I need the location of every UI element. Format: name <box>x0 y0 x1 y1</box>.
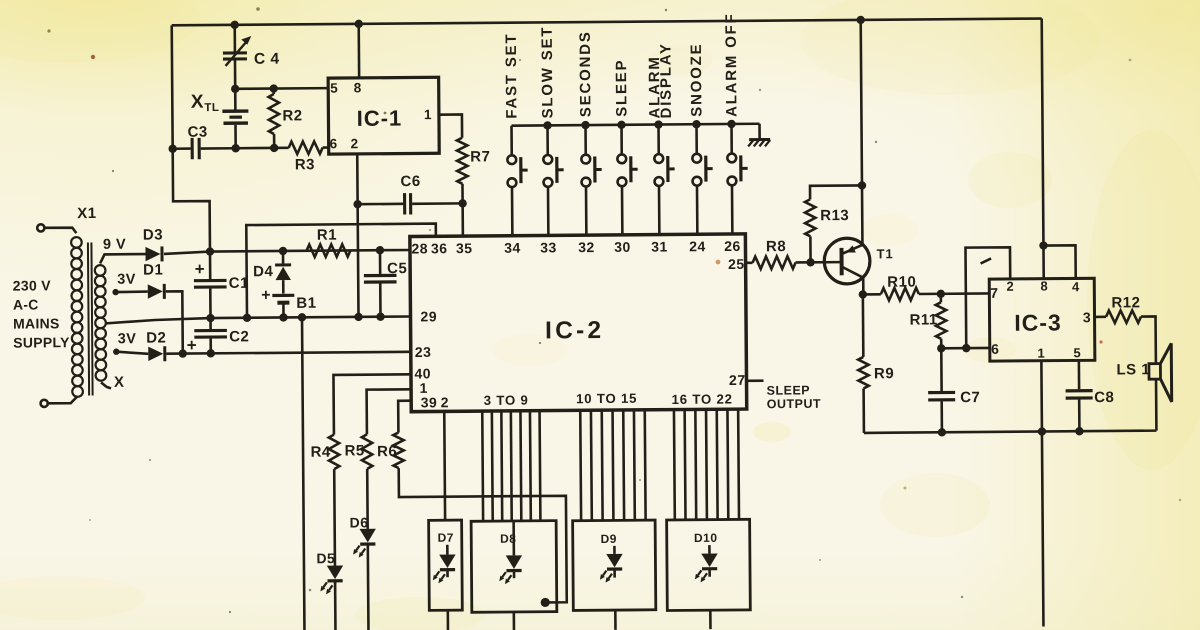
svg-text:D5: D5 <box>316 550 335 566</box>
svg-text:C3: C3 <box>187 124 207 141</box>
svg-text:26: 26 <box>724 238 741 254</box>
wire IC-2 pin 2 to D7 <box>443 411 446 521</box>
svg-text:+: + <box>195 260 205 279</box>
svg-text:3V: 3V <box>118 331 137 347</box>
svg-text:R12: R12 <box>1111 294 1140 311</box>
node top rail / IC-1 pin 8 <box>354 20 362 28</box>
svg-text:LS 1: LS 1 <box>1116 361 1150 378</box>
svg-text:R11: R11 <box>909 311 937 328</box>
wire oscillator node <box>236 146 329 149</box>
node 9V rail / D4 <box>279 247 287 255</box>
svg-text:IC-3: IC-3 <box>1014 309 1062 335</box>
svg-text:X: X <box>191 92 204 113</box>
label X1 <box>77 205 96 222</box>
diode D4 <box>275 251 291 294</box>
pin 6 label IC-3 <box>991 341 999 357</box>
label C7 <box>960 389 980 406</box>
LED inside D7 <box>432 545 455 584</box>
node C3 left junction <box>168 145 176 153</box>
capacitor C6 <box>358 193 463 215</box>
svg-text:R3: R3 <box>295 156 315 173</box>
diode D3 <box>145 246 162 261</box>
node C8/bottom rail <box>1075 427 1083 435</box>
svg-text:10 TO 15: 10 TO 15 <box>576 391 637 406</box>
node C4/XTL junction <box>231 85 239 93</box>
label R4 <box>311 444 331 461</box>
wire supply to IC-3 pin 8 <box>1042 19 1044 279</box>
pin 23 label <box>415 344 432 360</box>
pin 6 label <box>330 136 338 151</box>
resistor R2 <box>269 89 280 148</box>
svg-text:39: 39 <box>421 394 438 410</box>
label D5 <box>316 550 335 566</box>
wire center tap ground rail <box>106 316 411 323</box>
svg-text:C2: C2 <box>229 328 249 345</box>
wire R6 to D8 anode <box>399 467 567 604</box>
switch ALARM DISPLAY <box>654 124 675 235</box>
svg-text:2: 2 <box>1006 279 1014 294</box>
svg-text:6: 6 <box>330 136 338 151</box>
label D2 <box>146 329 166 346</box>
svg-text:X: X <box>114 374 125 391</box>
wire D5 down <box>334 582 337 630</box>
wires IC-2 pins 3-9 to D8 <box>482 410 540 521</box>
capacitor C3 <box>173 138 236 160</box>
label ALARM <box>646 55 663 118</box>
svg-text:29: 29 <box>420 308 437 324</box>
pin 29 label <box>420 308 437 324</box>
label SECONDS <box>577 30 595 117</box>
crystal XTL <box>222 89 248 149</box>
pin 2 label <box>351 136 359 151</box>
node R2 bottom <box>270 144 278 152</box>
resistor R8 <box>753 256 796 269</box>
node R11/C7 <box>937 344 945 352</box>
label 3V upper <box>117 272 136 288</box>
svg-text:230 V: 230 V <box>13 277 52 293</box>
label 9V <box>103 237 126 253</box>
svg-text:C7: C7 <box>960 389 980 406</box>
svg-text:9 V: 9 V <box>103 237 126 253</box>
svg-text:36: 36 <box>431 240 448 256</box>
label ALARM OFF <box>723 12 741 117</box>
svg-text:C8: C8 <box>1094 389 1114 406</box>
wire IC-1 pin 5 net <box>235 87 328 90</box>
capacitor C2 <box>194 318 227 354</box>
resistor R9 <box>858 357 869 389</box>
svg-text:SUPPLY: SUPPLY <box>13 334 70 350</box>
node XTL bottom <box>231 144 239 152</box>
label R2 <box>282 107 302 124</box>
node T1/R10/R9 <box>859 290 867 298</box>
capacitor C8 <box>1065 360 1093 431</box>
svg-text:C6: C6 <box>400 173 420 190</box>
svg-text:4: 4 <box>1072 279 1080 294</box>
terminal X1 bottom <box>41 396 78 407</box>
pin 31 label <box>651 238 668 254</box>
wire left supply rail <box>172 25 210 252</box>
svg-text:C 4: C 4 <box>254 51 280 68</box>
label R3 <box>295 156 315 173</box>
node ground rail / C1-C2 <box>206 314 214 322</box>
label R8 <box>766 238 786 255</box>
wire D9 down <box>614 610 617 630</box>
node pin1/bottom rail <box>1038 427 1046 435</box>
diode D2 <box>148 346 165 361</box>
svg-text:7: 7 <box>990 285 998 301</box>
resistor R1 <box>306 244 350 257</box>
pin 2 label IC-3 <box>1006 279 1014 294</box>
resistor R6 <box>393 433 404 469</box>
label D10 <box>694 531 718 545</box>
label C5 <box>387 260 407 277</box>
diode D1 <box>148 284 165 299</box>
pin 39 label <box>421 394 438 410</box>
svg-text:1: 1 <box>424 107 432 122</box>
svg-text:1: 1 <box>1037 346 1045 361</box>
svg-text:DISPLAY: DISPLAY <box>657 42 675 118</box>
svg-text:SLEEP: SLEEP <box>767 383 811 397</box>
svg-text:FAST SET: FAST SET <box>503 33 521 119</box>
node bus/ALARM OFF <box>727 120 735 128</box>
tick mark near IC-3 <box>981 258 992 263</box>
battery B1 <box>272 295 294 317</box>
pin 5 label <box>330 81 338 96</box>
wire supply to T1 <box>861 20 863 245</box>
wire display return rail <box>302 317 304 630</box>
wire bottom rail right <box>864 431 1156 433</box>
svg-text:5: 5 <box>1073 345 1081 360</box>
wires IC-2 pins 16-22 to D10 <box>674 409 739 520</box>
label + C1 <box>195 260 205 279</box>
node 3V tap lower <box>113 348 119 354</box>
node pin36 path/ground rail <box>243 314 251 322</box>
node ground rail / display return <box>298 313 306 321</box>
svg-text:3: 3 <box>1083 309 1091 325</box>
display D9 <box>573 520 656 610</box>
wire pin 4 bracket <box>1043 245 1075 278</box>
wire 9V tap <box>100 254 146 263</box>
capacitor C5 <box>364 250 397 317</box>
label R13 <box>820 207 849 224</box>
wire D6 down <box>367 545 370 630</box>
pin 3 label <box>1083 309 1091 325</box>
svg-text:SLEEP: SLEEP <box>613 59 630 117</box>
label D7 <box>438 531 454 545</box>
capacitor C4 (trimmer) <box>223 25 252 89</box>
terminal X1 top <box>37 224 76 233</box>
pin 32 label <box>578 239 595 255</box>
svg-text:MAINS: MAINS <box>13 315 60 331</box>
svg-text:+: + <box>261 287 270 304</box>
LED inside D10 <box>695 545 718 582</box>
wire IC-2 pin 25 to R8 <box>746 261 753 264</box>
wire D1 output <box>166 291 183 353</box>
label D3 <box>143 226 163 243</box>
display D7 <box>429 520 463 610</box>
svg-text:R6: R6 <box>377 443 397 460</box>
node pin2/C6 <box>353 200 361 208</box>
pins 3 TO 9 label <box>484 393 529 408</box>
node D8 anode terminal <box>541 598 550 607</box>
label D6 <box>350 514 369 530</box>
label C6 <box>400 173 420 190</box>
transistor T1 <box>824 238 870 284</box>
label R10 <box>887 274 916 291</box>
label IC-2 <box>545 317 604 344</box>
node bus/SECONDS <box>581 121 589 129</box>
LED inside D9 <box>600 546 623 583</box>
label R9 <box>874 365 894 382</box>
label R11 <box>909 311 937 328</box>
label D8 <box>500 532 516 546</box>
svg-text:C1: C1 <box>229 275 249 292</box>
resistor R13 <box>805 185 863 262</box>
svg-text:R9: R9 <box>874 365 894 382</box>
label XTL <box>191 91 220 114</box>
svg-text:OUTPUT: OUTPUT <box>767 397 821 411</box>
pin 33 label <box>540 239 557 255</box>
resistor R4 <box>329 435 340 470</box>
pin 2 label IC-2 <box>441 394 449 410</box>
wire IC-3 pin 2 bracket <box>965 247 1010 348</box>
wire switch bus <box>512 124 760 126</box>
node R2 top <box>269 84 277 92</box>
svg-text:R7: R7 <box>470 148 490 165</box>
svg-text:3V: 3V <box>117 272 136 288</box>
label 230V A-C MAINS SUPPLY <box>13 277 70 350</box>
node bus/ALARM DISPLAY <box>654 120 662 128</box>
ground symbol <box>748 139 770 146</box>
label C1 <box>229 275 249 292</box>
wire IC-2 pin 39 to R6 <box>398 401 411 433</box>
svg-text:23: 23 <box>415 344 432 360</box>
pin 30 label <box>614 239 631 255</box>
label C2 <box>229 328 249 345</box>
node top rail / C4 <box>230 21 238 29</box>
svg-text:A-C: A-C <box>13 296 39 312</box>
svg-text:R8: R8 <box>766 238 786 255</box>
svg-text:R2: R2 <box>282 107 302 124</box>
transformer X1 secondary winding <box>95 265 107 381</box>
transformer X1 core <box>88 242 93 395</box>
svg-text:33: 33 <box>540 239 557 255</box>
svg-text:5: 5 <box>330 81 338 96</box>
svg-text:24: 24 <box>689 238 706 254</box>
wire T1 to R9 <box>862 294 865 356</box>
LED D6 <box>353 529 376 558</box>
pin 35 label <box>456 240 473 256</box>
node ground rail / IC-1 pin2 <box>354 313 362 321</box>
wire IC-2 pin 40 to R4 <box>333 374 411 434</box>
display D8 <box>471 521 557 613</box>
svg-text:D3: D3 <box>143 226 163 243</box>
svg-text:2: 2 <box>351 136 359 151</box>
pin 5 label IC-3 <box>1073 345 1081 360</box>
resistor R7 <box>439 114 468 236</box>
node bus/SLEEP <box>617 121 625 129</box>
svg-text:6: 6 <box>991 341 999 357</box>
pins 10 TO 15 label <box>576 391 637 406</box>
pins 16 TO 22 label <box>672 391 733 406</box>
pin 8 label <box>354 80 362 95</box>
label SLEEP OUTPUT <box>767 383 822 411</box>
svg-text:SECONDS: SECONDS <box>577 30 595 117</box>
node R10/R11 <box>937 290 945 298</box>
label B1 <box>296 295 316 312</box>
label T1 <box>876 246 893 261</box>
pin 1 label IC-2 <box>420 380 428 396</box>
node ground rail / C5 <box>376 312 384 320</box>
label + near C2 <box>187 336 197 355</box>
svg-text:34: 34 <box>504 240 521 256</box>
svg-text:R5: R5 <box>344 442 364 459</box>
wire IC-1 pin 2 down <box>357 154 358 317</box>
switch SECONDS <box>581 125 602 236</box>
wire 3V rail to IC-2 pin 23 <box>166 352 410 354</box>
wire top supply rail <box>172 19 1042 26</box>
svg-text:25: 25 <box>728 256 745 272</box>
pin 40 label <box>414 365 431 381</box>
svg-text:35: 35 <box>456 240 473 256</box>
svg-text:31: 31 <box>651 238 668 254</box>
pin 28 label <box>411 240 428 256</box>
label R6 <box>377 443 397 460</box>
label C8 <box>1094 389 1114 406</box>
wire IC-3 pin 6 net <box>941 347 989 350</box>
op-amp IC-1 <box>328 77 439 154</box>
pin 27 label <box>729 372 746 388</box>
wire LS1 to bottom rail <box>1155 379 1158 430</box>
label IC-1 <box>357 106 403 131</box>
label C3 <box>187 124 207 141</box>
svg-text:IC-2: IC-2 <box>545 317 604 344</box>
audio amp IC-3 <box>989 278 1095 361</box>
capacitor C7 <box>928 348 956 432</box>
label IC-3 <box>1014 309 1062 335</box>
svg-text:T1: T1 <box>876 246 893 261</box>
svg-text:R10: R10 <box>887 274 916 291</box>
label FAST SET <box>503 33 521 119</box>
pin 8 label IC-3 <box>1040 278 1048 293</box>
wires IC-2 pins 10-15 to D9 <box>580 410 645 521</box>
pin 36 label <box>431 240 448 256</box>
node 3V tap upper <box>112 289 118 295</box>
wire IC-3 pin 1 down <box>1041 361 1043 627</box>
pin 26 label <box>724 238 741 254</box>
switch SLOW SET <box>543 125 564 236</box>
svg-text:8: 8 <box>354 80 362 95</box>
wire R9 to bottom rail <box>862 388 865 432</box>
pin 4 label <box>1072 279 1080 294</box>
node D1/D2 join <box>179 349 187 357</box>
pin 34 label <box>504 240 521 256</box>
wire D8 down <box>513 612 516 630</box>
svg-text:SNOOZE: SNOOZE <box>688 43 706 117</box>
label D9 <box>601 532 617 546</box>
label X tap <box>114 374 125 391</box>
label SNOOZE <box>688 43 706 117</box>
svg-text:SLOW SET: SLOW SET <box>539 26 557 119</box>
resistor R5 <box>362 434 373 469</box>
svg-text:IC-1: IC-1 <box>357 106 403 131</box>
wire IC-2 pin 27 stub <box>747 379 764 382</box>
capacitor C1 <box>194 251 227 318</box>
label R12 <box>1111 294 1140 311</box>
node top rail / T1 branch <box>856 16 864 24</box>
node ground rail / B1 <box>279 313 287 321</box>
svg-text:2: 2 <box>441 394 449 410</box>
svg-text:ALARM OFF: ALARM OFF <box>723 12 741 117</box>
node pin6/pin2 bracket <box>962 344 970 352</box>
svg-text:28: 28 <box>411 240 428 256</box>
svg-text:R13: R13 <box>820 207 849 224</box>
wire bus to ground <box>758 124 761 139</box>
svg-text:3 TO 9: 3 TO 9 <box>484 393 529 408</box>
clock chip IC-2 <box>410 234 747 412</box>
LED inside D8 <box>499 521 522 584</box>
wire D7 down <box>447 610 450 630</box>
wire 3V tap upper <box>116 290 148 293</box>
switch ALARM OFF <box>727 124 748 235</box>
wire R4 to D5 <box>333 469 336 566</box>
pin 1 label <box>424 107 432 122</box>
resistor R10 <box>863 287 990 300</box>
label D1 <box>143 261 163 278</box>
label DISPLAY <box>657 42 675 118</box>
LED D5 <box>320 566 343 595</box>
svg-text:X1: X1 <box>77 205 96 222</box>
wire IC-2 pin 36 to ground rail <box>246 224 436 318</box>
node pin8/pin4 <box>1039 241 1047 249</box>
node bus/SNOOZE <box>692 120 700 128</box>
wire 3V tap lower <box>116 351 148 354</box>
pin 1 label IC-3 <box>1037 346 1045 361</box>
svg-text:D9: D9 <box>601 532 617 546</box>
pin 24 label <box>689 238 706 254</box>
wire R8 to T1 base <box>796 261 840 264</box>
svg-text:C5: C5 <box>387 260 407 277</box>
wire D3 to C1 node <box>164 250 410 254</box>
resistor R11 <box>936 294 947 349</box>
svg-text:D10: D10 <box>694 531 718 545</box>
resistor R3 <box>289 141 323 154</box>
node bus/SLOW SET <box>543 121 551 129</box>
label R1 <box>317 227 337 244</box>
pin 7 label <box>990 285 998 301</box>
wire R5 to D6 <box>366 469 369 529</box>
node 9V rail / C1 <box>206 247 214 255</box>
switch FAST SET <box>507 126 528 237</box>
label LS1 <box>1116 361 1150 378</box>
node R13/supply <box>858 181 866 189</box>
svg-text:D1: D1 <box>143 261 163 278</box>
node 3V rail / C2 <box>207 349 215 357</box>
svg-text:R1: R1 <box>317 227 337 244</box>
svg-text:D6: D6 <box>350 514 369 530</box>
transformer X1 primary winding <box>71 237 83 397</box>
svg-text:16 TO 22: 16 TO 22 <box>672 391 733 406</box>
switch SLEEP <box>617 125 638 236</box>
label + B1 <box>261 287 270 304</box>
wire IC-2 pin 1 to R5 <box>367 389 412 434</box>
speaker LS1 <box>1149 343 1172 402</box>
svg-text:8: 8 <box>1040 278 1048 293</box>
node base/R13 <box>806 258 814 266</box>
label 3V lower <box>118 331 137 347</box>
svg-text:TL: TL <box>204 102 219 114</box>
svg-text:D2: D2 <box>146 329 166 346</box>
